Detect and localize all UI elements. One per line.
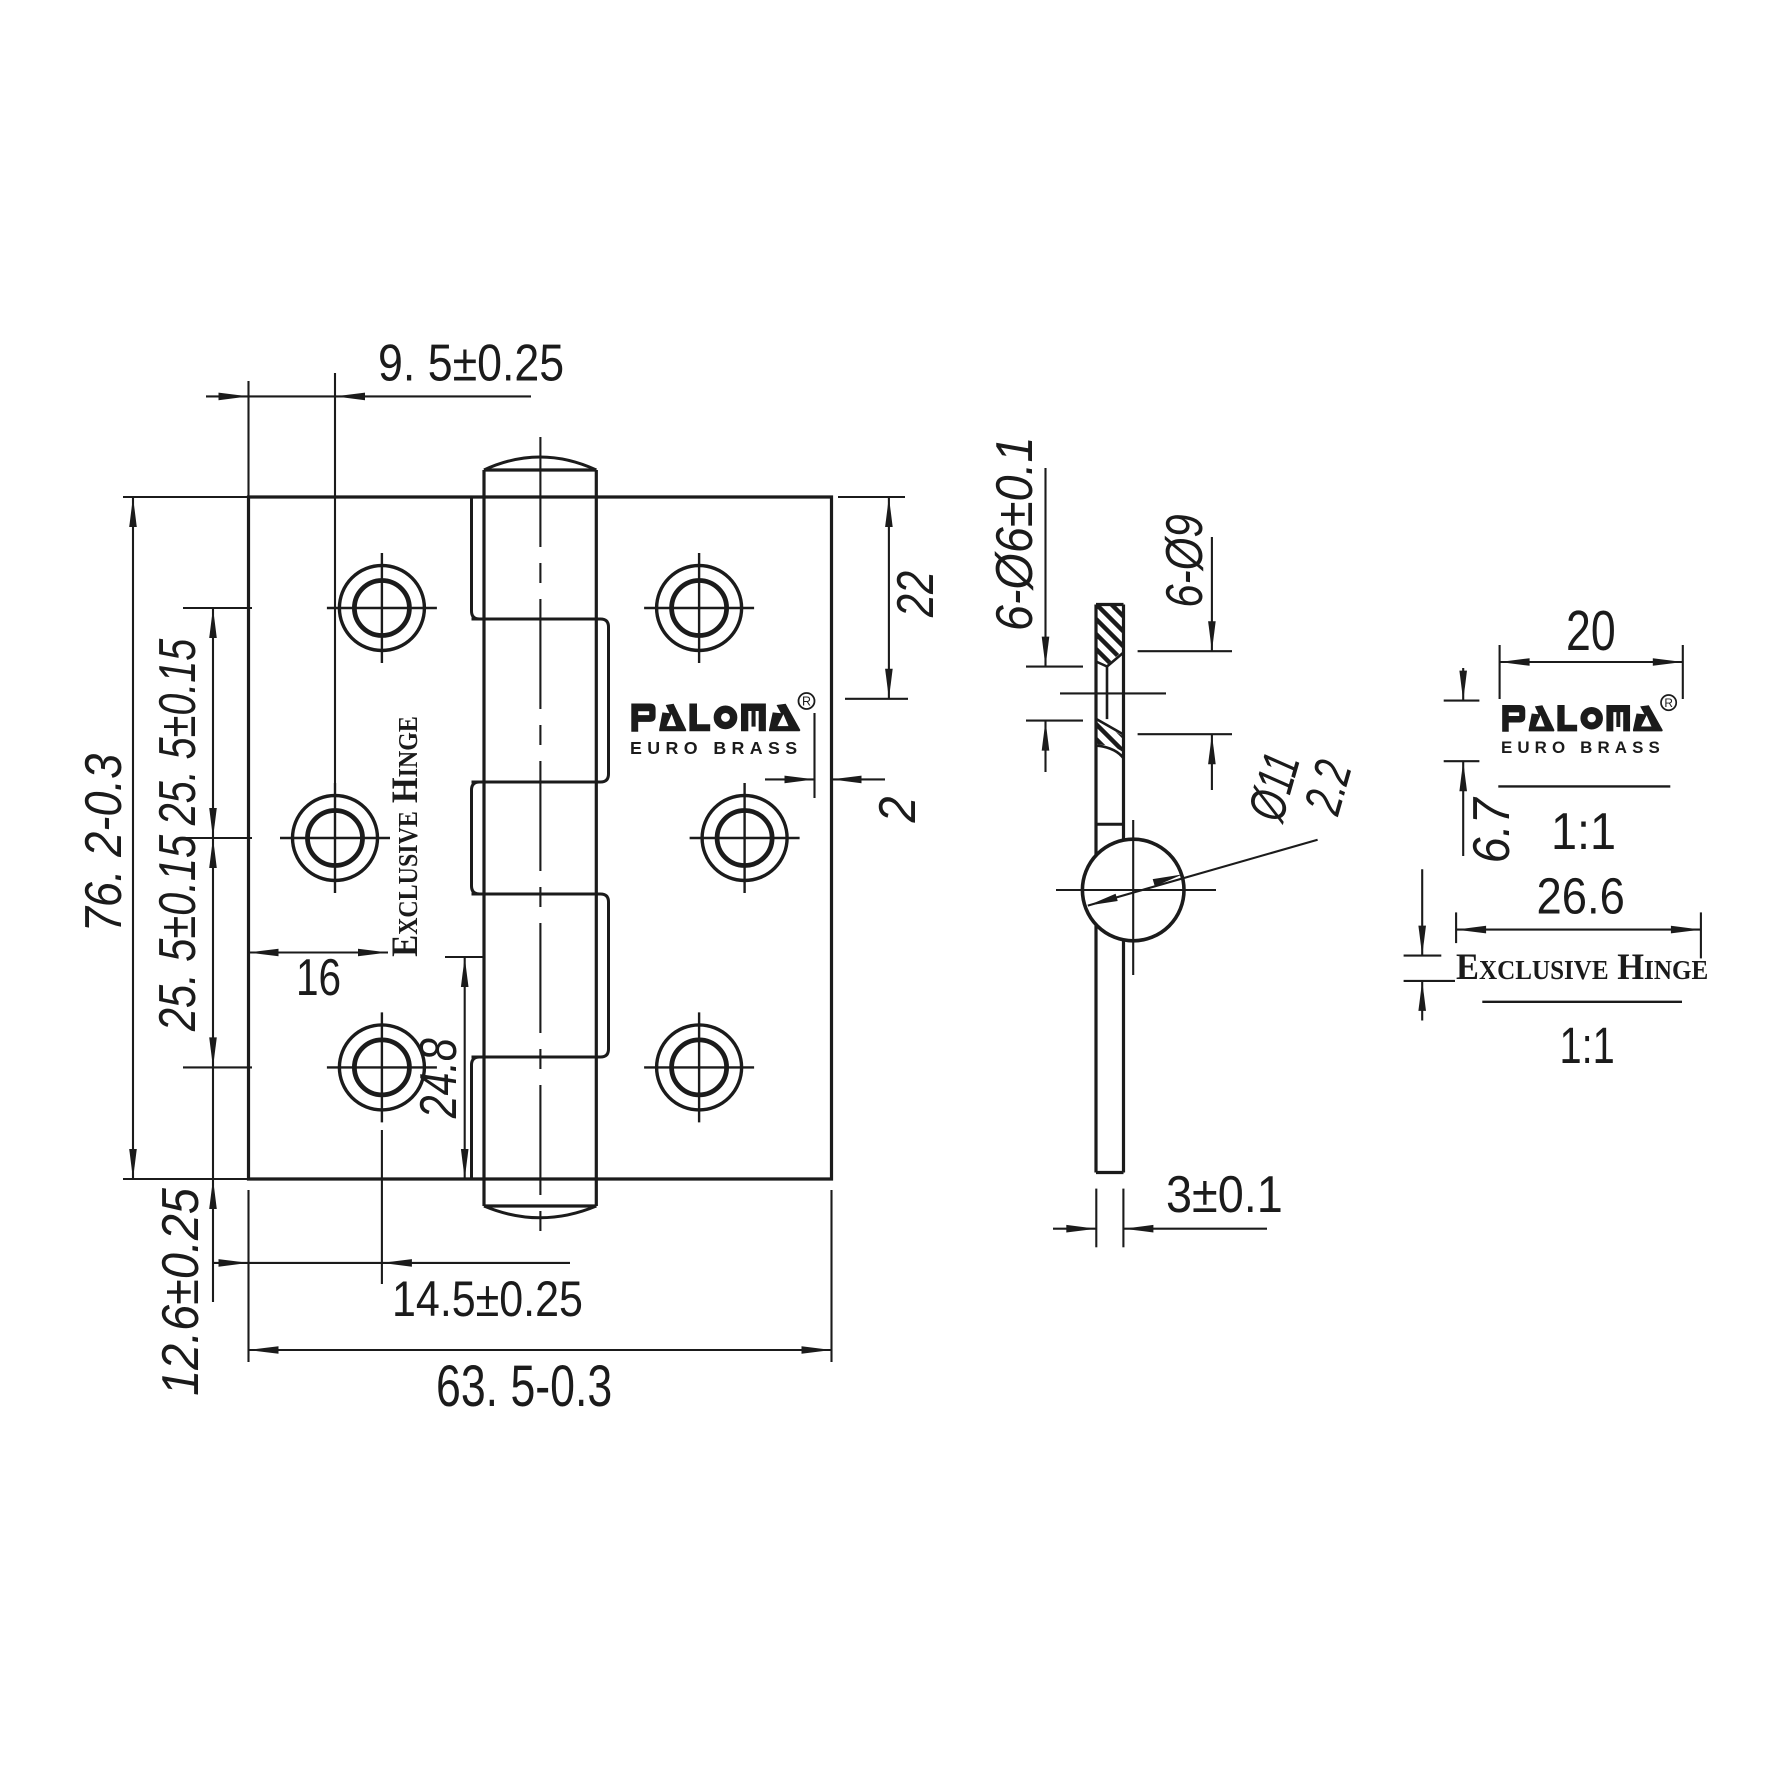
left leaf notch top [472,497,480,619]
arrow 22 bottom [885,669,893,699]
arrow 76.2 bottom [129,1149,137,1179]
exclusive hinge text right column [1456,946,1708,987]
arrow 6-09 down [1208,621,1216,651]
dim eh ext lower [1404,980,1455,982]
dim 26.6 ext left [1455,912,1457,943]
dim 6-06 line lower [1044,721,1046,772]
pin circle crosshair horizontal [1056,889,1216,891]
dim 22 line [888,497,890,699]
logo2 rule [1498,785,1670,787]
svg-text:1:1: 1:1 [1551,803,1616,861]
arrow 6.7 up [1459,761,1467,791]
arrow 2 right [832,776,862,784]
left leaf notch middle [472,782,480,894]
section plate bottom [1096,1171,1124,1174]
dim 26.6 ext right [1700,912,1702,958]
dim 6.7 line upper [1462,668,1464,701]
dim 6-09 line lower [1211,734,1213,790]
dim 6-06 ext lower [1026,720,1083,722]
dim 3 line right [1123,1228,1267,1230]
svg-text:2: 2 [869,796,927,823]
arrow 3 left [1066,1225,1096,1233]
arrow 20 left [1500,658,1530,666]
arrow 63.5 left [249,1346,279,1354]
exclusive hinge text front view rotated [384,716,425,957]
arrow 2 left [785,776,815,784]
right knuckle bump lower [596,894,608,1057]
barrel top chord [484,468,596,471]
dim 14.5 line [213,1262,570,1264]
exclusive hinge rule [1482,1001,1682,1003]
dim 6.7 ext upper [1444,700,1480,702]
ext hole row2 [183,837,252,839]
arrow 12.6 up [209,1179,217,1209]
dim 9.5 line [206,395,531,397]
arrow 22 top [885,497,893,527]
dim 3 ext right [1122,1189,1124,1248]
dim 6-09 ext upper [1138,650,1232,652]
dim o11 leader [1088,840,1318,906]
dim 2 line left [765,778,815,780]
barrel bottom cap arc [484,1206,596,1218]
hatch lower block [1076,689,1140,798]
arrow 14.5 right [382,1259,412,1267]
hatch upper block [1076,554,1140,693]
dim 6.7 line lower [1462,761,1464,856]
svg-text:63. 5-0.3: 63. 5-0.3 [436,1353,612,1418]
svg-text:25. 5±0.15: 25. 5±0.15 [148,639,207,827]
pin centerline [539,437,541,1243]
svg-text:16: 16 [296,948,341,1006]
knuckle division 4 [472,1056,597,1059]
right knuckle bump upper [596,619,608,782]
svg-text:22: 22 [886,571,945,618]
arrow 6-09 up [1208,734,1216,764]
dim 24.8 line [464,957,466,1179]
knuckle division 3 [472,893,597,896]
knuckle top line [1096,823,1124,826]
ext right edge below [830,1190,832,1362]
arrow o11 upper-right [1153,874,1183,886]
hole bottom-left [327,1012,437,1122]
knuckle division 2 [472,781,597,784]
arrow 6-06 down [1042,637,1050,667]
ext left edge below [247,1190,249,1362]
dim 2 line right [832,778,886,780]
countersink cone lower [1097,719,1124,734]
section plate top [1096,603,1124,606]
dim 9.5 extension hole column [334,373,336,783]
DIMENSIONS [123,373,1701,1362]
arrow 26.6 right [1671,926,1701,934]
left leaf notch bottom [472,1057,480,1179]
arrow 6.7 down [1459,671,1467,701]
arrow 16 right [358,949,388,957]
arrow chain row3 down [209,1037,217,1067]
hole bottom-right [644,1012,754,1122]
dim 16 line [249,951,389,953]
arrow eh down [1418,926,1426,956]
knuckle division 1 [472,618,597,621]
svg-text:76. 2-0.3: 76. 2-0.3 [75,754,133,933]
arrow chain row2 up [209,838,217,868]
dim 26.6 line [1456,929,1701,931]
svg-text:6-Ø6±0.1: 6-Ø6±0.1 [986,436,1044,631]
svg-text:26.6: 26.6 [1537,868,1625,925]
dim eh line lower [1421,981,1423,1021]
arrow chain row1 up [209,608,217,638]
dim 24.8 ext top [445,956,483,958]
dim 20 ext right [1682,645,1684,699]
arrow 26.6 left [1456,926,1486,934]
hole middle-left [280,783,390,893]
svg-text:6.7: 6.7 [1463,796,1521,863]
knuckle barrel right edge [595,470,598,1206]
dim 63.5 line [249,1349,832,1351]
ext top edge left [123,496,249,498]
section plate right edge [1122,605,1125,841]
dim 6.7 ext lower [1444,760,1480,762]
dim eh line upper [1421,869,1423,955]
pin circle [1082,839,1184,941]
arrow 24.8 bottom [461,1149,469,1179]
dim 9.5 extension left edge [247,381,249,497]
barrel bottom chord [484,1204,596,1207]
bore centerline [1060,692,1166,694]
dim 6-06 line upper [1044,468,1046,667]
ext bottom edge left [123,1178,249,1180]
hole top-left [327,553,437,663]
arrow 3 right [1123,1225,1153,1233]
dim 3 ext left [1095,1189,1097,1248]
section lower cut boundary [1096,746,1124,757]
hole top-right [644,553,754,663]
dim 22 ext top [838,496,905,498]
dim 20 ext left [1499,645,1501,699]
hole middle-right [690,783,800,893]
bore silhouette [1106,667,1109,720]
pin circle crosshair vertical [1132,820,1134,975]
dim eh ext upper [1404,955,1442,957]
arrow 9.5 right [335,393,365,401]
arrow 76.2 top [129,497,137,527]
barrel top cap arc [484,457,596,470]
svg-text:6-Ø9: 6-Ø9 [1156,514,1214,608]
dim 76.2 line [132,497,134,1179]
ext hole row3 [183,1066,252,1068]
chain dim line left [212,608,214,1302]
svg-text:1:1: 1:1 [1560,1017,1615,1074]
svg-text:3±0.1: 3±0.1 [1166,1166,1283,1224]
arrow 24.8 top [461,957,469,987]
arrow chain row2 down [209,808,217,838]
ext hole row1 [183,607,252,609]
dim 6-09 ext lower [1138,733,1232,735]
svg-text:9. 5±0.25: 9. 5±0.25 [378,334,564,392]
arrow 6-06 up [1042,721,1050,751]
countersink cone upper [1096,653,1124,667]
ext hole col below [381,1130,383,1284]
arrow 20 right [1653,658,1683,666]
paloma logo right column [1501,695,1676,757]
svg-text:14.5±0.25: 14.5±0.25 [392,1271,583,1327]
dim 6-06 ext upper [1026,666,1083,668]
dim 3 line left [1053,1228,1096,1230]
dim 22 ext bottom [845,698,908,700]
section plate left edge [1094,605,1097,856]
dim 2 ext [813,713,815,798]
arrow 14.5 left [219,1259,249,1267]
dim 20 line [1500,661,1683,663]
svg-text:20: 20 [1566,599,1616,662]
knuckle barrel left edge [482,470,485,1206]
svg-text:12.6±0.25: 12.6±0.25 [152,1188,210,1396]
hinge plate outline [249,497,832,1179]
arrow 9.5 left [219,393,249,401]
arrow eh up [1418,981,1426,1011]
dim 6-09 line upper [1211,537,1213,651]
svg-text:25. 5±0.15: 25. 5±0.15 [148,834,207,1032]
svg-text:24.8: 24.8 [409,1038,467,1119]
arrow 63.5 right [802,1346,832,1354]
arrow o11 lower-left [1088,894,1118,906]
ARROWHEADS [129,393,1701,1354]
arrow 16 left [249,949,279,957]
